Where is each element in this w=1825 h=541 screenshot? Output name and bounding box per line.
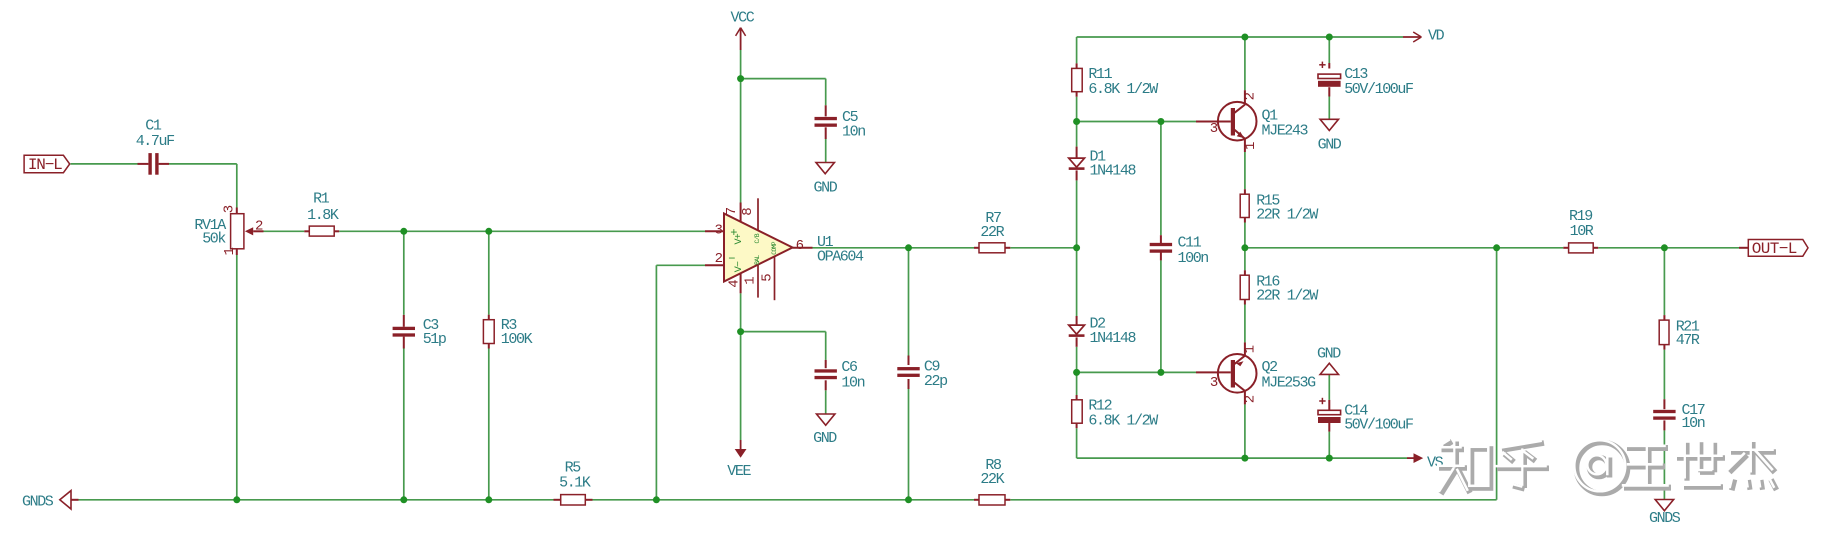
svg-text:47R: 47R	[1676, 332, 1700, 349]
svg-text:IN−L: IN−L	[28, 156, 62, 174]
svg-text:OPA604: OPA604	[817, 249, 864, 266]
svg-text:1N4148: 1N4148	[1090, 163, 1137, 180]
svg-text:C6: C6	[841, 359, 858, 376]
svg-text:2: 2	[1243, 395, 1259, 403]
svg-text:GND: GND	[814, 180, 838, 197]
svg-text:GNDS: GNDS	[1649, 510, 1681, 527]
svg-text:V+: V+	[734, 233, 745, 244]
svg-text:VEE: VEE	[727, 463, 751, 480]
svg-text:OUT−L: OUT−L	[1752, 240, 1797, 258]
svg-text:COMP: COMP	[771, 241, 778, 254]
svg-text:7: 7	[724, 207, 740, 215]
svg-text:6.8K 1/2W: 6.8K 1/2W	[1088, 413, 1158, 430]
svg-text:22R 1/2W: 22R 1/2W	[1256, 206, 1318, 223]
svg-text:MJE253G: MJE253G	[1262, 375, 1317, 392]
svg-text:51p: 51p	[423, 331, 446, 348]
svg-text:4.7uF: 4.7uF	[136, 133, 174, 150]
svg-text:1: 1	[222, 248, 238, 256]
svg-text:1: 1	[1243, 142, 1259, 150]
svg-text:3: 3	[222, 205, 238, 213]
svg-text:10n: 10n	[1682, 415, 1705, 432]
svg-text:8: 8	[740, 208, 756, 216]
svg-text:R1: R1	[313, 191, 330, 208]
svg-text:100K: 100K	[501, 331, 533, 348]
svg-text:5: 5	[760, 274, 776, 282]
svg-text:2: 2	[255, 219, 263, 235]
svg-text:3: 3	[1210, 375, 1218, 391]
svg-text:50k: 50k	[202, 230, 226, 247]
svg-text:GND: GND	[813, 430, 837, 447]
svg-text:2: 2	[1242, 92, 1258, 100]
svg-text:4: 4	[726, 280, 742, 288]
svg-text:1: 1	[1243, 345, 1259, 353]
svg-text:1: 1	[743, 277, 759, 285]
svg-text:GND: GND	[1317, 345, 1341, 362]
svg-text:GND: GND	[1318, 137, 1342, 154]
svg-text:50V/100uF: 50V/100uF	[1344, 81, 1413, 98]
svg-text:22R: 22R	[980, 224, 1004, 241]
svg-text:MJE243: MJE243	[1262, 123, 1309, 140]
svg-text:10n: 10n	[842, 124, 865, 141]
svg-text:50V/100uF: 50V/100uF	[1344, 417, 1413, 434]
svg-text:3: 3	[715, 223, 723, 239]
svg-text:22R 1/2W: 22R 1/2W	[1256, 287, 1318, 304]
svg-text:1N4148: 1N4148	[1090, 330, 1137, 347]
svg-text:BAL: BAL	[754, 255, 761, 265]
svg-text:10R: 10R	[1570, 223, 1594, 240]
svg-text:100n: 100n	[1178, 250, 1209, 267]
svg-text:5.1K: 5.1K	[559, 475, 591, 492]
svg-text:2: 2	[715, 251, 723, 267]
svg-text:22p: 22p	[924, 373, 947, 390]
svg-text:22K: 22K	[980, 471, 1004, 488]
svg-text:1.8K: 1.8K	[307, 207, 339, 224]
svg-text:V−: V−	[734, 261, 745, 272]
svg-text:VD: VD	[1428, 28, 1445, 45]
svg-text:C/B: C/B	[754, 233, 761, 243]
svg-text:6: 6	[796, 238, 804, 254]
svg-text:3: 3	[1210, 121, 1218, 137]
svg-text:6.8K 1/2W: 6.8K 1/2W	[1088, 81, 1158, 98]
svg-text:VCC: VCC	[731, 10, 755, 27]
svg-text:10n: 10n	[841, 374, 864, 391]
svg-text:GNDS: GNDS	[22, 493, 54, 510]
